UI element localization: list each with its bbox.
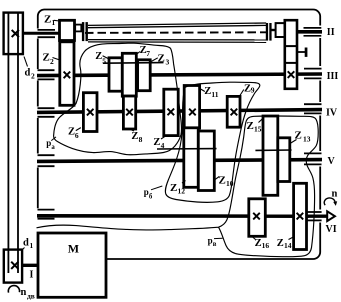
- gear Z5: [109, 58, 122, 91]
- x mark right block on shaft III: [288, 71, 295, 78]
- bearing shaft V left wall: [38, 155, 55, 166]
- label pointer Z10: [215, 177, 220, 180]
- svg-text:IV: IV: [326, 108, 338, 119]
- svg-text:Z: Z: [153, 137, 160, 148]
- svg-text:2: 2: [50, 57, 54, 66]
- motor M: [38, 233, 106, 297]
- svg-text:d: d: [25, 68, 31, 79]
- label pointer Z14: [289, 237, 294, 240]
- label pv: [208, 235, 217, 248]
- gear Z3: [138, 60, 151, 91]
- svg-text:4: 4: [161, 141, 165, 150]
- svg-text:II: II: [327, 27, 335, 38]
- x mark gear Z4: [168, 109, 175, 116]
- label pointer Z8: [130, 129, 134, 131]
- gear Z2: [60, 42, 74, 106]
- output shaft VI stub: [307, 214, 328, 217]
- svg-text:1: 1: [30, 241, 34, 250]
- gear Z10: [198, 131, 214, 191]
- svg-text:14: 14: [284, 241, 292, 250]
- label Z10: [219, 175, 234, 189]
- svg-text:Z: Z: [158, 53, 165, 65]
- block line through Z5 Z7 Z3: [103, 62, 164, 65]
- label Z5: [95, 51, 106, 66]
- label pointer Z6: [76, 128, 81, 131]
- rotation arc n output: [324, 198, 335, 205]
- shaft I stub: [22, 264, 39, 267]
- bearing shaft IV right wall: [304, 104, 322, 113]
- svg-text:б: б: [149, 193, 153, 200]
- label pointer d1: [22, 248, 25, 251]
- gear Z14: [294, 183, 307, 249]
- svg-text:а: а: [51, 144, 55, 151]
- bearing shaft II left wall: [38, 30, 56, 37]
- svg-text:12: 12: [178, 187, 186, 196]
- shaft V: [37, 160, 322, 162]
- svg-text:Z: Z: [277, 238, 284, 249]
- clutch stub on right block: [297, 51, 306, 53]
- gear Z11: [184, 86, 199, 129]
- shaft VI: [37, 214, 309, 218]
- x mark gear Z14: [297, 213, 304, 220]
- svg-text:Z: Z: [247, 120, 254, 132]
- label pa: [46, 138, 55, 151]
- svg-text:16: 16: [262, 241, 270, 250]
- gear Z9: [227, 96, 240, 127]
- label Z6: [68, 127, 79, 140]
- label pointer d2: [24, 57, 28, 67]
- shaft II right stub to bearing: [297, 30, 322, 34]
- svg-text:M: M: [68, 241, 79, 255]
- label Z9: [244, 84, 255, 95]
- x mark gear Z8: [126, 109, 133, 116]
- label Z13: [295, 130, 311, 144]
- svg-text:Z: Z: [204, 86, 211, 97]
- shaft II left stub from pulley d2 to gear Z1: [23, 32, 61, 35]
- label Z11: [204, 86, 219, 99]
- label pointer pv: [214, 237, 223, 239]
- svg-text:6: 6: [75, 131, 79, 140]
- label pointer Z15: [259, 118, 264, 123]
- svg-text:дв: дв: [27, 292, 35, 301]
- shaft IV: [37, 110, 322, 113]
- pulley d2: [4, 13, 23, 55]
- gear Z15: [263, 116, 278, 195]
- hollow shaft II top line: [88, 23, 266, 25]
- x mark gear Z9: [231, 109, 238, 116]
- svg-text:в: в: [213, 241, 217, 248]
- label Z12: [170, 182, 185, 196]
- label pb: [144, 187, 153, 200]
- bearing shaft III right wall: [304, 69, 322, 79]
- rotation arc n dv: [8, 286, 19, 293]
- label Z8: [131, 131, 142, 144]
- link coupling to hub: [272, 29, 277, 31]
- gear Z6: [83, 93, 97, 132]
- coupling right (flange bars): [266, 23, 272, 41]
- label pointer Z9: [240, 90, 244, 97]
- svg-text:Z: Z: [43, 52, 50, 64]
- svg-text:n: n: [332, 189, 338, 200]
- x mark gear Z2: [64, 72, 71, 79]
- label Z14: [277, 238, 292, 250]
- label pointer Z4: [161, 136, 165, 139]
- hub on shaft II right: [276, 23, 285, 37]
- gear Z8: [123, 96, 135, 129]
- gear Z13: [278, 138, 290, 182]
- bearing shaft IV left wall: [38, 108, 55, 117]
- bearing shaft VI left wall: [38, 210, 55, 219]
- block line through Z12 Z10: [157, 148, 217, 150]
- svg-text:Z: Z: [219, 175, 226, 187]
- svg-text:1: 1: [52, 18, 56, 27]
- group loop pa: [54, 43, 182, 155]
- svg-text:5: 5: [102, 56, 106, 65]
- gear Z7: [122, 53, 136, 96]
- shaft II dashed centerline: [85, 31, 268, 34]
- label n dv: [21, 287, 35, 301]
- svg-text:7: 7: [146, 49, 150, 58]
- label pointer Z3: [151, 58, 158, 62]
- bearing shaft II right wall: [304, 28, 322, 36]
- x mark gear Z11: [189, 109, 196, 116]
- label pointer pb: [151, 186, 162, 190]
- label pointer pa: [51, 137, 56, 141]
- svg-text:2: 2: [31, 72, 35, 81]
- gear Z12: [184, 128, 199, 188]
- svg-text:VI: VI: [326, 224, 337, 235]
- svg-text:V: V: [328, 156, 336, 167]
- shaft II short segment Z1 to coupling: [74, 27, 83, 30]
- svg-text:8: 8: [139, 135, 143, 144]
- svg-text:n: n: [21, 287, 27, 298]
- label Z16: [255, 238, 270, 250]
- label Z2: [43, 52, 55, 67]
- group loop pb: [165, 82, 259, 202]
- svg-text:Z: Z: [295, 130, 302, 142]
- gear Z16: [249, 199, 265, 237]
- label pointer Z5: [103, 56, 109, 59]
- gear block on shaft II-III top right: [285, 20, 297, 89]
- label pointer Z12: [182, 181, 186, 184]
- x mark gear Z6: [87, 109, 94, 116]
- svg-text:Z: Z: [131, 131, 138, 142]
- x mark pulley d2: [12, 30, 19, 37]
- coupling left (flange bars): [82, 22, 88, 41]
- svg-text:11: 11: [211, 90, 218, 99]
- svg-text:d: d: [23, 238, 29, 249]
- x mark pulley d1: [11, 262, 18, 269]
- svg-text:Z: Z: [255, 238, 262, 249]
- svg-text:Z: Z: [95, 51, 102, 62]
- label pointer Z1: [54, 19, 60, 22]
- svg-text:9: 9: [251, 86, 255, 95]
- svg-text:13: 13: [303, 135, 311, 144]
- label Z4: [153, 137, 164, 150]
- bearing shaft VI right wall: [307, 212, 322, 220]
- pulley d1: [4, 250, 22, 283]
- label pointer Z16: [252, 237, 256, 240]
- x mark gear Z16: [253, 213, 260, 220]
- label pointer Z13: [290, 140, 297, 144]
- svg-text:III: III: [327, 71, 339, 82]
- bearing shaft V right wall: [304, 153, 322, 164]
- label d2: [25, 68, 36, 81]
- output arrow: [327, 211, 335, 221]
- label Z1: [44, 14, 56, 28]
- belt: [7, 14, 9, 274]
- gear Z4: [164, 89, 178, 135]
- hollow shaft II bottom line: [88, 39, 266, 41]
- label Z3: [158, 53, 170, 67]
- svg-text:10: 10: [226, 179, 234, 188]
- label Z15: [247, 120, 262, 134]
- label pointer Z7: [137, 52, 140, 54]
- svg-text:I: I: [30, 270, 34, 281]
- bearing shaft III left wall: [38, 70, 55, 79]
- gear Z1: [60, 20, 75, 40]
- hub on shaft II left: [75, 25, 81, 32]
- block line through Z15 Z13: [255, 149, 291, 151]
- svg-text:3: 3: [166, 58, 170, 67]
- label Z7: [140, 45, 151, 58]
- housing frame: [38, 9, 320, 259]
- svg-text:Z: Z: [170, 182, 177, 194]
- label pointer Z2: [53, 58, 60, 61]
- shaft III: [37, 74, 322, 76]
- label d1: [23, 238, 34, 251]
- svg-text:15: 15: [254, 125, 262, 134]
- svg-text:Z: Z: [44, 14, 51, 26]
- group loop pv: [37, 116, 319, 257]
- label pointer Z11: [200, 89, 205, 92]
